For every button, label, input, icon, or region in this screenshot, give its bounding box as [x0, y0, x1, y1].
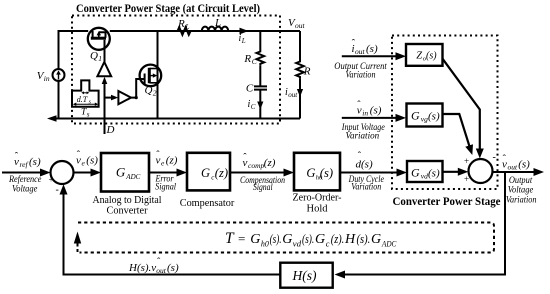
- svg-text:Signal: Signal: [253, 183, 273, 193]
- wire: top rail from Vin to Q1: [59, 31, 89, 69]
- svg-text:in: in: [362, 109, 368, 118]
- svg-text:R: R: [303, 66, 311, 78]
- svg-text:(s): (s): [366, 43, 378, 55]
- svg-text:G: G: [411, 109, 420, 123]
- block GADC: [101, 153, 149, 192]
- svg-text:G: G: [371, 232, 381, 247]
- svg-text:Compensator: Compensator: [180, 197, 235, 209]
- svg-text:h0: h0: [261, 239, 270, 249]
- svg-text:R: R: [243, 53, 251, 65]
- svg-text:Hold: Hold: [307, 202, 328, 214]
- block Zo(s): [406, 44, 443, 66]
- svg-text:(s): (s): [370, 105, 382, 117]
- gate driver triangle for Q2: [118, 91, 131, 104]
- svg-text:Converter Power Stage: Converter Power Stage: [393, 196, 501, 208]
- svg-text:Variation: Variation: [351, 182, 381, 192]
- svg-text:(z): (z): [264, 157, 276, 169]
- svg-text:(z).: (z).: [331, 231, 344, 246]
- block Gvg(s): [407, 104, 443, 127]
- resistor R load: [296, 60, 304, 78]
- svg-text:(s): (s): [426, 51, 437, 62]
- svg-text:G: G: [411, 166, 420, 180]
- svg-text:(s): (s): [428, 168, 440, 180]
- svg-text:(s).: (s).: [302, 231, 314, 246]
- svg-text:H: H: [344, 232, 356, 247]
- svg-text:out: out: [355, 47, 366, 56]
- arrow output vout(s): [493, 171, 536, 173]
- block Gc(z): [187, 153, 230, 191]
- wire: Gvd to summing junction: [442, 171, 460, 173]
- svg-text:L: L: [241, 37, 246, 45]
- wire: top rail from Q1 to output corner: [110, 30, 300, 32]
- block Gvd(s): [407, 161, 443, 182]
- svg-text:+: +: [49, 175, 54, 185]
- resistor RC: [257, 50, 265, 65]
- block H(s): [280, 263, 332, 288]
- wire: R to bottom rail with iout arrow: [299, 78, 301, 118]
- transistor Q1 high-side MOSFET: [88, 28, 110, 50]
- svg-text:ref: ref: [20, 160, 29, 169]
- arrow: GADC to Gc: [149, 172, 179, 174]
- svg-text:H(s).v: H(s).v: [128, 262, 156, 274]
- svg-text:(s).: (s).: [270, 231, 282, 246]
- arrow: Gc to Gh0: [230, 172, 286, 174]
- capacitor C: [254, 86, 267, 89]
- svg-text:Voltage: Voltage: [508, 186, 534, 196]
- wire: bottom rail with left return arrow: [55, 118, 300, 120]
- svg-text:s: s: [87, 111, 90, 119]
- dashed box: converter power stage at circuit level: [72, 16, 280, 124]
- svg-text:G: G: [282, 232, 292, 247]
- wire: C to bottom rail with iC arrow: [259, 90, 261, 119]
- svg-text:(s): (s): [518, 159, 530, 171]
- svg-text:C: C: [246, 83, 254, 95]
- svg-text:Converter: Converter: [107, 205, 148, 217]
- arrow input vref: [2, 172, 42, 174]
- dashed equation box: [78, 223, 494, 253]
- arrow input vin(s): [342, 117, 397, 119]
- PWM pulse symbol: [72, 80, 99, 106]
- wire: D input line with arrow into driver: [104, 83, 106, 134]
- svg-text:Variation: Variation: [345, 131, 379, 141]
- svg-text:(z): (z): [215, 166, 228, 180]
- dashed box: converter power stage block level: [392, 36, 498, 190]
- wire: RC branch top: [259, 31, 261, 50]
- wire: Zo to summing junction: [443, 59, 480, 151]
- arrow: summing to GADC: [74, 172, 93, 174]
- svg-text:C: C: [251, 103, 256, 111]
- svg-text:H(s): H(s): [292, 268, 317, 283]
- svg-text:+: +: [464, 156, 469, 166]
- svg-text:G: G: [315, 232, 325, 247]
- svg-text:1: 1: [98, 54, 102, 63]
- inductor L: [202, 27, 228, 31]
- resistor RL: [176, 27, 193, 35]
- svg-text:Signal: Signal: [155, 182, 176, 192]
- svg-text:(s).: (s).: [357, 231, 371, 246]
- svg-text:Output: Output: [509, 176, 533, 186]
- svg-text:(s): (s): [320, 166, 333, 180]
- wire: H(s) to summing junction: [64, 191, 281, 275]
- svg-text:Variation: Variation: [346, 71, 376, 81]
- svg-text:out: out: [295, 21, 306, 30]
- summing junction power stage: [469, 159, 493, 183]
- svg-text:Voltage: Voltage: [12, 184, 37, 194]
- summing junction error: [51, 161, 74, 184]
- svg-text:Q: Q: [145, 85, 153, 97]
- junction dot: [135, 96, 138, 99]
- gate driver triangle for Q1: [97, 62, 111, 76]
- svg-text:G: G: [306, 166, 315, 180]
- svg-text:ADC: ADC: [125, 173, 140, 181]
- wire: feedback down from output into H(s): [341, 172, 505, 275]
- arrow input iout(s): [342, 55, 397, 57]
- arrow: Gh0 to Gvd: [340, 172, 399, 174]
- svg-text:Variation: Variation: [506, 196, 537, 206]
- voltage source Vin: [53, 69, 65, 81]
- wire: driver to Q2 gate: [131, 79, 144, 98]
- wire: Q1 gate lead to driver: [104, 40, 106, 63]
- svg-text:R: R: [177, 18, 185, 30]
- svg-text:out: out: [508, 163, 519, 172]
- svg-text:ADC: ADC: [381, 239, 397, 249]
- svg-text:-: -: [493, 152, 496, 163]
- svg-text:G: G: [116, 165, 126, 180]
- svg-text:Converter Power Stage (at Circ: Converter Power Stage (at Circuit Level): [76, 3, 260, 15]
- block Gh0(s): [294, 153, 340, 191]
- dashed loop gain arrow: [77, 238, 79, 252]
- svg-text:T: T: [225, 230, 235, 247]
- svg-text:=: =: [238, 231, 245, 246]
- svg-text:(s): (s): [167, 262, 179, 274]
- svg-text:comp: comp: [248, 161, 264, 170]
- arrow iL: [240, 28, 249, 35]
- svg-text:+: +: [464, 174, 469, 184]
- wire: switch node vertical through Q2: [157, 31, 159, 119]
- svg-text:(s): (s): [428, 111, 440, 123]
- svg-text:vd: vd: [293, 239, 302, 249]
- svg-text:(z): (z): [166, 155, 178, 167]
- svg-text:in: in: [44, 74, 50, 83]
- svg-text:G: G: [250, 232, 260, 247]
- svg-text:(s): (s): [29, 156, 41, 168]
- wire: Vin bottom lead: [58, 81, 60, 119]
- svg-text:c: c: [326, 239, 330, 249]
- svg-text:L: L: [184, 22, 189, 31]
- svg-text:Z: Z: [416, 51, 422, 62]
- svg-text:(s): (s): [86, 155, 98, 167]
- wire: Gvg to summing junction: [442, 114, 470, 148]
- wire: RC to C: [259, 65, 261, 86]
- svg-text:D: D: [106, 124, 115, 136]
- svg-text:Q: Q: [90, 50, 98, 62]
- transistor Q2 low-side MOSFET: [140, 65, 162, 87]
- svg-text:L: L: [214, 17, 221, 29]
- svg-text:-: -: [56, 185, 59, 196]
- wire: output branch down: [299, 31, 301, 60]
- svg-text:d.T: d.T: [77, 95, 88, 104]
- svg-text:out: out: [288, 91, 298, 99]
- svg-text:2: 2: [153, 89, 157, 98]
- svg-text:G: G: [201, 166, 210, 180]
- wire: gate branch to Q2 driver: [105, 97, 113, 99]
